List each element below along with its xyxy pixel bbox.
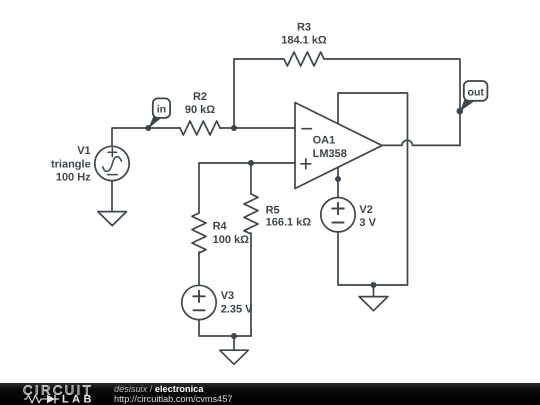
svg-text:LAB: LAB	[62, 394, 95, 405]
flag in	[148, 98, 170, 128]
resistor R5	[244, 194, 258, 234]
op-amp OA1	[295, 103, 382, 189]
wire V2 bottom rail	[338, 232, 408, 285]
wire V3 bottom rail	[199, 320, 251, 337]
CircuitLab logo	[0, 383, 110, 405]
footer credit text	[114, 385, 232, 404]
svg-text:3 V: 3 V	[359, 217, 376, 229]
svg-text:in: in	[157, 104, 166, 116]
svg-text:100 kΩ: 100 kΩ	[213, 234, 250, 246]
label V3	[221, 290, 253, 316]
node op-amp V- junction	[335, 176, 341, 182]
voltage source V1	[95, 146, 129, 180]
ground under V1	[98, 212, 127, 226]
ground under V3	[220, 336, 249, 364]
footer bar	[0, 383, 540, 405]
voltage source V2	[321, 198, 355, 232]
svg-text:R4: R4	[213, 220, 228, 232]
label OA1	[313, 134, 347, 160]
svg-text:V3: V3	[221, 290, 234, 302]
svg-text:OA1: OA1	[313, 134, 336, 146]
wire V1 to ground	[111, 181, 113, 212]
wire main input rail	[112, 128, 295, 146]
node V2 ground junction	[371, 282, 377, 288]
label V2	[359, 204, 376, 229]
svg-text:V2: V2	[359, 204, 372, 216]
label R2	[185, 91, 215, 116]
wire feedback top right	[324, 59, 460, 145]
wire op-amp V+ loop	[338, 93, 408, 285]
node R5 top junction	[248, 160, 254, 166]
wire op-amp V- pin	[337, 167, 339, 198]
svg-text:V1: V1	[77, 145, 90, 157]
wire R4 branch	[198, 163, 200, 286]
label V1	[51, 145, 91, 184]
label R3	[281, 21, 327, 46]
svg-text:LM358: LM358	[313, 148, 347, 160]
label R5	[266, 204, 312, 228]
wire op-amp output with hop	[382, 140, 460, 145]
svg-text:90 kΩ: 90 kΩ	[185, 104, 215, 116]
voltage source V3	[182, 285, 216, 319]
ground under V2	[359, 285, 388, 311]
resistor R4	[192, 213, 206, 253]
wire plus input rail	[199, 162, 295, 164]
wire feedback left vertical	[234, 59, 284, 128]
svg-text:R3: R3	[297, 21, 311, 33]
resistor R2	[180, 121, 220, 135]
node feedback junction	[231, 125, 237, 131]
flag out	[460, 81, 488, 111]
svg-text:out: out	[468, 87, 485, 99]
svg-text:triangle: triangle	[51, 159, 91, 171]
svg-text:184.1 kΩ: 184.1 kΩ	[281, 34, 327, 46]
resistor R3	[284, 52, 324, 66]
svg-text:R5: R5	[266, 204, 280, 216]
svg-text:100 Hz: 100 Hz	[56, 172, 91, 184]
node V3 ground junction	[231, 333, 237, 339]
node in junction	[145, 125, 151, 131]
svg-text:R2: R2	[193, 91, 207, 103]
svg-text:166.1 kΩ: 166.1 kΩ	[266, 217, 312, 229]
label R4	[213, 220, 250, 246]
wire R5 branch	[250, 163, 252, 336]
node out junction	[457, 108, 464, 115]
svg-text:2.35 V: 2.35 V	[221, 303, 253, 315]
